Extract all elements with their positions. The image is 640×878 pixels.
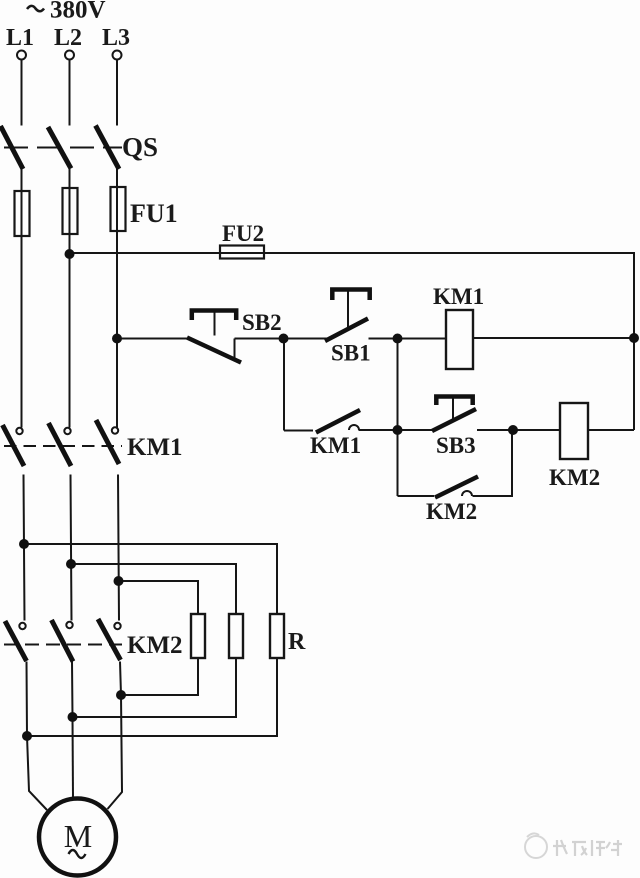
svg-text:L3: L3 [102,25,130,51]
svg-text:M: M [64,818,92,854]
svg-text:KM2: KM2 [127,632,183,659]
svg-text:SB1: SB1 [331,341,371,366]
svg-text:KM2: KM2 [426,499,477,524]
svg-text:KM1: KM1 [127,434,183,461]
svg-text:R: R [288,629,306,655]
svg-text:QS: QS [122,132,158,162]
svg-text:380V: 380V [50,0,106,24]
svg-text:L1: L1 [6,25,34,51]
svg-text:L2: L2 [54,25,82,51]
svg-text:SB2: SB2 [242,310,282,335]
svg-text:KM2: KM2 [549,465,600,490]
svg-text:SB3: SB3 [436,433,476,458]
svg-text:KM1: KM1 [433,284,484,309]
svg-text:FU2: FU2 [222,221,264,246]
svg-text:KM1: KM1 [310,433,361,458]
svg-text:FU1: FU1 [130,199,178,228]
